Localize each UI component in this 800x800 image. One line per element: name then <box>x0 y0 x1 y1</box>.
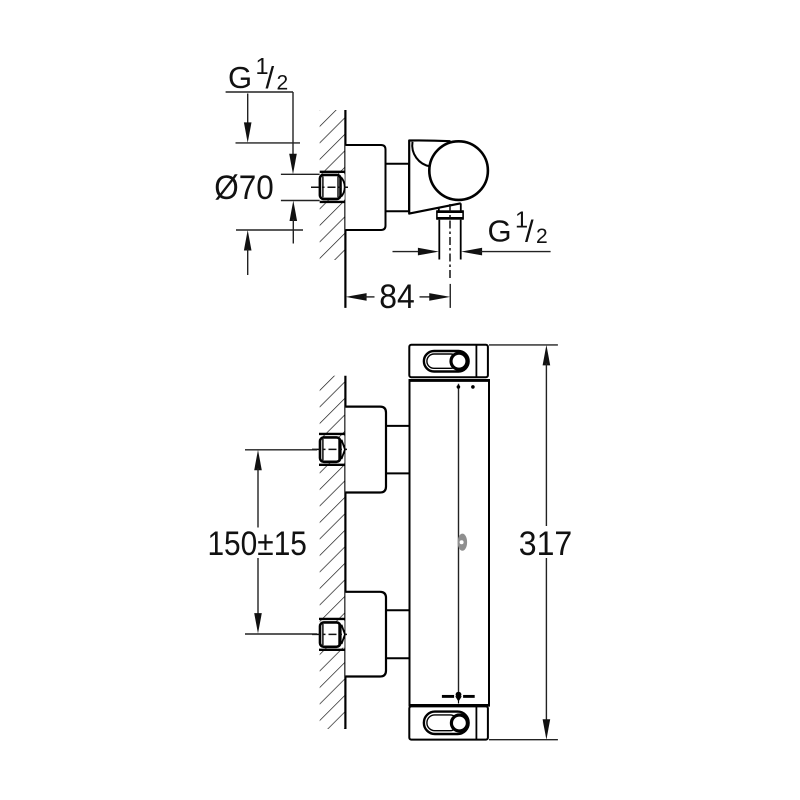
bottom anchor mark <box>442 695 454 698</box>
mixer body <box>410 380 490 705</box>
dim 150±15 <box>245 449 317 451</box>
upper connection block <box>345 407 386 493</box>
connection nipple <box>386 164 410 212</box>
body top thick edge <box>409 379 491 382</box>
lower neck lines <box>386 609 410 611</box>
bottom pill <box>424 712 469 734</box>
dim G 1/2 (outlet, right) <box>393 251 421 253</box>
svg-text:/: / <box>266 60 275 95</box>
top pill <box>424 351 469 372</box>
bottom cap (handle) <box>409 706 488 739</box>
leader under G 1/2 <box>226 91 293 93</box>
svg-text:G: G <box>488 213 512 248</box>
outlet centerline (dash-dot vertical) <box>449 204 451 281</box>
escutcheon dim arrows (Ø70) <box>247 94 249 125</box>
lower union nut <box>319 618 345 620</box>
svg-text:/: / <box>525 213 534 248</box>
dim 84 <box>346 293 367 301</box>
upper union nut <box>319 433 345 435</box>
escutcheon (top view) <box>345 145 385 230</box>
shower holder body outline <box>409 140 461 213</box>
leader vertical + down arrow to union top <box>292 92 294 158</box>
union nut (top view) <box>320 171 345 173</box>
svg-text:150±15: 150±15 <box>207 525 307 563</box>
wall hatching (bottom view) <box>320 376 346 729</box>
body centerline <box>458 384 460 693</box>
svg-text:84: 84 <box>379 278 415 316</box>
svg-text:2: 2 <box>536 225 548 248</box>
wall hatching (top view) <box>320 110 346 260</box>
holder inner fillet curve <box>412 142 430 167</box>
svg-text:Ø70: Ø70 <box>214 169 274 207</box>
svg-text:G: G <box>228 60 252 95</box>
upper neck lines <box>386 425 410 427</box>
holder circle <box>429 141 488 200</box>
outlet fitting below circle <box>438 208 440 211</box>
witness line union bottom <box>281 200 320 202</box>
svg-text:317: 317 <box>519 525 573 563</box>
up arrow at union bottom <box>290 201 298 222</box>
lower connection block <box>345 592 386 677</box>
dot on centerline <box>457 385 461 389</box>
svg-text:2: 2 <box>277 72 289 95</box>
top cap (handle) <box>409 345 488 378</box>
dim 317 <box>489 344 558 346</box>
grohe logo blob <box>458 534 467 551</box>
dot right <box>471 385 475 389</box>
wall line (bottom view) <box>344 376 346 729</box>
outlet flange bands <box>437 210 463 213</box>
union centerline (dash-dot) <box>311 186 348 188</box>
hose stub lines <box>438 220 440 260</box>
witness line union top <box>281 173 320 175</box>
body bottom thick edge <box>409 704 491 707</box>
84 right extension line <box>449 284 451 308</box>
wall line (top view) <box>344 110 346 308</box>
